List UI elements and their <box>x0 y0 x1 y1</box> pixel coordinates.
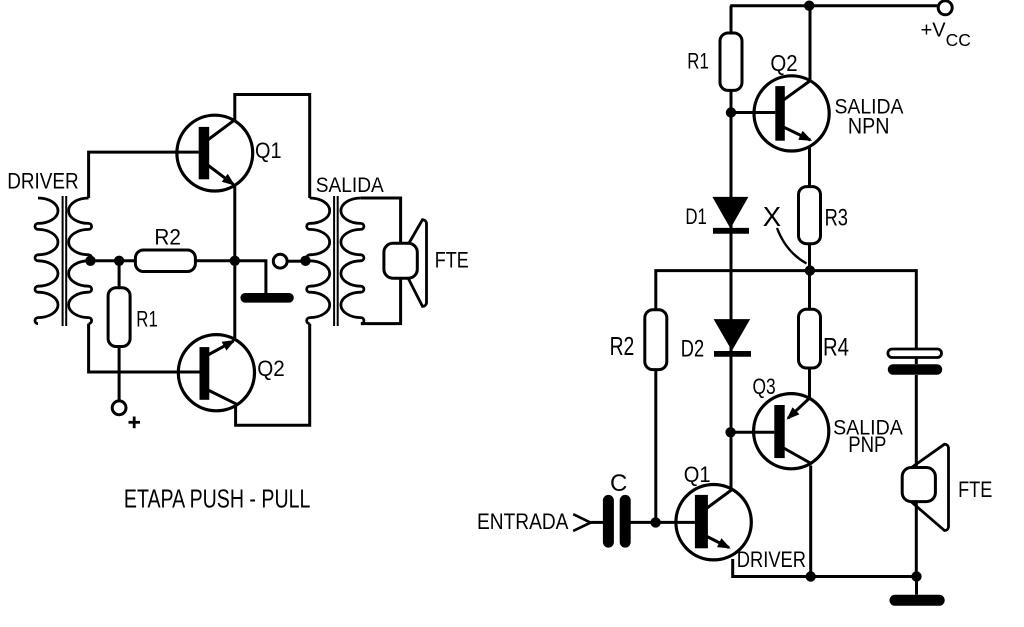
wire tap circle to SALIDA primary <box>287 260 302 263</box>
transistor Q3 (SALIDA PNP) <box>754 394 829 469</box>
svg-text:Q1: Q1 <box>684 462 711 487</box>
speaker FTE (left) body <box>384 243 417 278</box>
svg-text:R4: R4 <box>823 334 849 362</box>
wire Q3 emitter down to bottom rail <box>809 466 812 577</box>
terminal circle +Vcc <box>938 1 952 15</box>
wire electrolytic top plate gap <box>915 358 918 365</box>
resistor R3 <box>799 187 821 244</box>
svg-text:ETAPA PUSH - PULL: ETAPA PUSH - PULL <box>124 486 311 514</box>
speaker FTE (right) horn <box>908 444 949 530</box>
transformer T2 SALIDA core <box>334 196 338 326</box>
svg-text:Q2: Q2 <box>770 50 797 76</box>
input arrow ENTRADA <box>573 514 590 531</box>
junction dots (left circuit) <box>85 256 310 266</box>
transformer T1 DRIVER core <box>63 196 67 326</box>
svg-text:SALIDA: SALIDA <box>316 173 385 197</box>
node collector line / R2 <box>230 256 240 266</box>
wire Q2 base <box>731 111 775 114</box>
wire rail to R1 <box>730 6 733 33</box>
wire SALIDA secondary top to speaker <box>361 198 401 243</box>
node rail / Q2 collector <box>804 1 814 11</box>
node R1 / Q2 base <box>726 107 736 117</box>
electrolytic capacitor top plate <box>888 349 942 358</box>
wire DRIVER secondary bottom to Q2 base <box>89 324 200 372</box>
svg-text:R1: R1 <box>687 49 709 74</box>
resistor R1 (right) <box>720 33 742 90</box>
wire Q1 emitter line down to Q2 collector <box>233 187 236 340</box>
svg-text:Q3: Q3 <box>753 374 776 399</box>
node D2 / Q3 base <box>725 427 735 437</box>
terminal circle + supply <box>112 401 126 415</box>
node X mid rail <box>805 265 815 275</box>
wire mid rail to R4 <box>808 271 811 310</box>
transistor Q1 (right, DRIVER) <box>676 485 751 560</box>
wire electrolytic cap to speaker <box>915 375 918 468</box>
svg-text:DRIVER: DRIVER <box>737 547 806 572</box>
svg-text:D1: D1 <box>685 204 707 229</box>
wire mid rail <box>656 271 917 349</box>
wire rail to Q2 collector <box>809 6 812 81</box>
svg-text:FTE: FTE <box>958 477 992 502</box>
svg-text:ENTRADA: ENTRADA <box>477 509 569 534</box>
transformer T2 SALIDA secondary winding <box>341 198 364 324</box>
wire DRIVER center tap to R2 <box>89 259 137 262</box>
wire R1 to D1 to D2 to Q1 collector <box>730 90 733 489</box>
transistor Q2 (right, SALIDA NPN) <box>754 76 829 151</box>
wire Q2 emitter to R3 <box>808 146 811 187</box>
ground (right circuit) <box>895 595 939 606</box>
junction dots (right circuit) <box>650 1 921 582</box>
node C / R2 / Q1 base <box>650 517 660 527</box>
node SALIDA center tap <box>300 256 310 266</box>
resistor R2 <box>135 250 195 272</box>
resistor R1 <box>108 288 130 347</box>
diode D2 <box>714 319 751 354</box>
transformer T1 DRIVER secondary winding <box>69 198 92 324</box>
wire R4 to Q3 <box>808 368 811 397</box>
svg-text:Q2: Q2 <box>257 356 285 381</box>
wire R1 bottom to + terminal <box>118 347 121 401</box>
wire SALIDA secondary bottom to speaker <box>361 278 401 323</box>
svg-text:+VCC: +VCC <box>921 19 971 50</box>
wire Q1 collector to SALIDA primary top <box>235 95 310 199</box>
svg-text:NPN: NPN <box>848 114 890 139</box>
node R1 top <box>114 256 124 266</box>
electrolytic capacitor bottom plate <box>893 364 937 375</box>
transistor Q1 <box>177 115 253 191</box>
svg-text:X: X <box>763 201 781 232</box>
svg-text:R3: R3 <box>825 205 848 232</box>
transistor Q2 (left) <box>178 335 254 411</box>
capacitor C plates <box>608 500 625 542</box>
transformer T1 DRIVER primary winding <box>35 198 58 324</box>
node Q1 emitter rail / Q3 <box>806 571 816 581</box>
svg-text:PNP: PNP <box>848 432 886 457</box>
wire ground stub (right) <box>915 577 918 595</box>
speaker FTE (left) horn <box>405 220 427 307</box>
wire +Vcc rail <box>730 4 938 7</box>
wire Q1 base to DRIVER secondary top <box>89 152 199 198</box>
node DRIVER center tap <box>85 256 95 266</box>
svg-text:DRIVER: DRIVER <box>7 169 79 194</box>
wire center tap down to R1 <box>118 261 121 288</box>
svg-text:D2: D2 <box>681 336 704 363</box>
resistor R2 (right) <box>645 310 667 370</box>
wire input arrow to capacitor C <box>591 521 603 524</box>
svg-text:C: C <box>610 470 627 497</box>
wire R2 bottom to Q1 base node <box>654 370 657 523</box>
node bottom rail / speaker <box>911 571 921 581</box>
svg-text:R2: R2 <box>154 225 181 250</box>
terminal circle center tap <box>273 254 287 268</box>
wire speaker to bottom rail <box>915 502 918 577</box>
wire R2 right to collector line <box>195 259 234 262</box>
wire Q1 emitter to bottom rail <box>733 559 917 577</box>
node X pointer curve <box>777 228 807 264</box>
svg-text:R1: R1 <box>136 306 158 331</box>
diode D1 <box>712 197 749 231</box>
svg-text:FTE: FTE <box>435 248 469 273</box>
ground (left circuit) <box>245 293 289 303</box>
wire R3 bottom to mid rail <box>808 244 811 271</box>
wire ground stub from collector junction <box>235 261 266 294</box>
plus sign <box>129 417 141 429</box>
resistor R4 <box>799 309 821 368</box>
transformer T2 SALIDA primary winding <box>307 198 330 324</box>
wire Q2 bottom to SALIDA primary bottom <box>236 324 310 426</box>
svg-text:R2: R2 <box>610 333 635 361</box>
wire Q3 base <box>731 431 774 434</box>
svg-text:Q1: Q1 <box>255 138 282 163</box>
wire C to Q1 base <box>631 521 695 524</box>
speaker FTE (right) body <box>902 468 935 502</box>
